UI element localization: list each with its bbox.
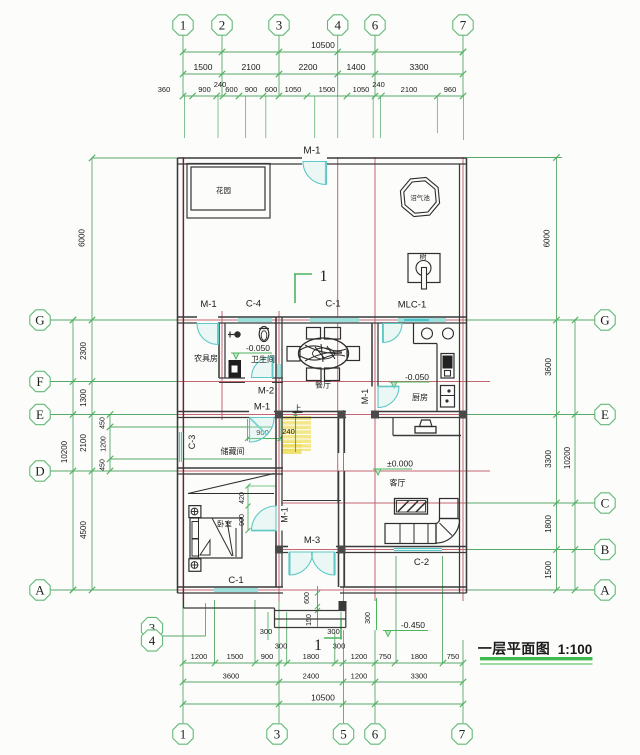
entry steps <box>275 610 346 612</box>
window C-1 north <box>310 317 359 323</box>
leader to bubbles 3,4 <box>160 635 206 637</box>
svg-text:农具房: 农具房 <box>194 353 218 363</box>
svg-text:2100: 2100 <box>401 85 418 94</box>
door M-1 kitchen <box>378 386 399 388</box>
svg-text:1200: 1200 <box>351 672 368 681</box>
svg-text:7: 7 <box>459 727 466 742</box>
svg-text:C-3: C-3 <box>187 435 197 450</box>
svg-text:240: 240 <box>282 427 295 436</box>
bathroom toilet <box>259 327 269 342</box>
svg-text:2: 2 <box>219 18 226 33</box>
svg-text:E: E <box>36 407 44 422</box>
door M-2 bathroom <box>272 357 274 378</box>
svg-text:6: 6 <box>372 18 379 33</box>
svg-text:±0.000: ±0.000 <box>387 459 413 469</box>
svg-text:1: 1 <box>320 268 328 285</box>
courtyard left wall <box>177 158 179 593</box>
nightstands <box>189 506 201 518</box>
wall E <box>178 411 250 413</box>
wall G (north) <box>178 316 198 318</box>
svg-text:卧室: 卧室 <box>217 519 232 529</box>
svg-text:1200: 1200 <box>351 652 368 661</box>
svg-text:1800: 1800 <box>411 652 428 661</box>
svg-text:600: 600 <box>225 85 238 94</box>
bed <box>190 518 242 558</box>
tree/well symbol <box>408 254 440 283</box>
svg-text:900: 900 <box>245 85 258 94</box>
svg-text:G: G <box>35 313 44 328</box>
svg-text:M-2: M-2 <box>258 386 274 397</box>
svg-text:2100: 2100 <box>79 434 88 452</box>
staircase highlight <box>282 416 312 451</box>
svg-text:1: 1 <box>314 637 322 654</box>
wall A (south) <box>178 586 284 588</box>
axis bubbles left <box>30 310 50 330</box>
svg-text:M-1: M-1 <box>254 402 270 413</box>
wall axis5 <box>338 412 340 454</box>
svg-text:10500: 10500 <box>311 693 335 703</box>
biogas pool octagon <box>400 177 439 216</box>
under-stair slope <box>188 493 274 495</box>
svg-text:4: 4 <box>334 18 341 33</box>
svg-text:240: 240 <box>214 80 227 89</box>
svg-text:C-4: C-4 <box>246 299 261 310</box>
svg-text:6000: 6000 <box>543 229 552 247</box>
bottom dimension lines <box>183 662 463 664</box>
svg-text:B: B <box>601 542 610 557</box>
svg-text:4: 4 <box>149 633 156 648</box>
svg-text:750: 750 <box>379 652 392 661</box>
svg-text:1:100: 1:100 <box>558 642 593 657</box>
planter (garden bed) <box>187 164 270 219</box>
courtyard 6000 dims <box>91 158 93 320</box>
wall axis6 <box>371 323 373 387</box>
window MLC-1 <box>398 317 446 323</box>
svg-text:7: 7 <box>460 18 467 33</box>
portal line at C <box>283 500 341 502</box>
svg-text:4500: 4500 <box>79 521 88 539</box>
wall F <box>219 377 245 379</box>
courtyard right wall <box>459 164 461 317</box>
svg-text:MLC-1: MLC-1 <box>398 300 427 311</box>
svg-text:花园: 花园 <box>216 185 231 195</box>
svg-text:树: 树 <box>420 252 427 261</box>
step detail dims <box>317 586 319 628</box>
svg-text:M-1: M-1 <box>360 389 370 405</box>
right dimension lines <box>556 320 558 590</box>
svg-text:C-2: C-2 <box>414 557 429 568</box>
svg-text:C: C <box>601 496 610 511</box>
axis bubbles right <box>595 310 615 330</box>
svg-text:客厅: 客厅 <box>390 478 406 488</box>
svg-text:750: 750 <box>447 652 460 661</box>
svg-text:-0.050: -0.050 <box>405 372 429 382</box>
window C-4 <box>238 317 272 323</box>
svg-text:A: A <box>600 583 610 598</box>
axis bubbles top <box>173 15 193 35</box>
svg-text:C-1: C-1 <box>325 299 340 310</box>
svg-text:5: 5 <box>340 727 347 742</box>
svg-text:960: 960 <box>444 85 457 94</box>
left wall inner line <box>183 317 185 593</box>
svg-text:E: E <box>601 407 609 422</box>
window C-3 <box>178 432 184 462</box>
kitchen counter <box>413 323 415 344</box>
window C-2 <box>394 547 442 553</box>
svg-text:餐厅: 餐厅 <box>315 381 331 390</box>
svg-text:1050: 1050 <box>353 85 370 94</box>
column at entry <box>339 601 347 611</box>
svg-text:6000: 6000 <box>78 229 87 247</box>
svg-text:3600: 3600 <box>544 358 553 376</box>
svg-text:600: 600 <box>265 85 278 94</box>
svg-text:1: 1 <box>180 727 187 742</box>
svg-text:2300: 2300 <box>79 342 88 360</box>
svg-text:240: 240 <box>372 80 385 89</box>
door M-1 bedroom <box>252 530 277 532</box>
svg-text:1800: 1800 <box>544 515 553 533</box>
interior dims near stair <box>247 419 249 441</box>
svg-text:300: 300 <box>327 627 340 636</box>
svg-text:10200: 10200 <box>563 446 572 469</box>
svg-text:1: 1 <box>180 18 187 33</box>
door M-1 storage <box>250 418 267 435</box>
svg-text:1050: 1050 <box>285 85 302 94</box>
svg-text:300: 300 <box>333 642 346 651</box>
interior dims bedroom door <box>247 486 249 531</box>
svg-text:300: 300 <box>275 642 288 651</box>
left dimension lines <box>72 320 74 590</box>
TV alcove <box>392 418 394 436</box>
svg-text:M-1: M-1 <box>303 146 321 157</box>
svg-text:1300: 1300 <box>79 389 88 407</box>
svg-text:450: 450 <box>100 417 107 429</box>
door MLC-1 leaf <box>382 324 384 343</box>
axis bubbles bottom <box>173 724 193 744</box>
svg-text:沼气池: 沼气池 <box>410 193 430 202</box>
svg-text:1200: 1200 <box>191 652 208 661</box>
section mark 1 (bottom) <box>324 637 342 639</box>
svg-text:D: D <box>35 464 44 479</box>
svg-text:一层平面图: 一层平面图 <box>478 641 551 657</box>
sofa <box>385 524 436 544</box>
svg-text:150: 150 <box>306 614 313 626</box>
svg-text:3300: 3300 <box>544 450 553 468</box>
svg-text:360: 360 <box>158 85 171 94</box>
svg-text:G: G <box>600 313 609 328</box>
door M-3 double entry <box>288 552 290 575</box>
courtyard top wall <box>178 157 303 159</box>
kitchen sink circles <box>422 328 433 339</box>
svg-text:2400: 2400 <box>303 672 320 681</box>
svg-text:3300: 3300 <box>410 62 429 72</box>
kitchen lower unit <box>441 386 455 408</box>
red axis lines <box>160 319 490 321</box>
wall axis3 <box>275 317 277 506</box>
svg-text:300: 300 <box>260 627 273 636</box>
svg-text:10200: 10200 <box>60 440 69 463</box>
door M-1 courtyard gate <box>325 161 327 185</box>
svg-text:450: 450 <box>100 459 107 471</box>
svg-text:2100: 2100 <box>242 62 261 72</box>
svg-text:900: 900 <box>198 85 211 94</box>
svg-text:-0.050: -0.050 <box>246 343 270 353</box>
wall junction blocks <box>275 411 283 419</box>
svg-text:3600: 3600 <box>223 672 240 681</box>
svg-text:900: 900 <box>261 652 274 661</box>
svg-text:3: 3 <box>274 727 281 742</box>
dining chairs <box>307 328 321 340</box>
svg-text:1500: 1500 <box>227 652 244 661</box>
wall D <box>178 467 284 469</box>
svg-text:A: A <box>35 583 45 598</box>
door M-1 farm-tool room <box>217 323 219 345</box>
svg-text:M-1: M-1 <box>280 507 290 523</box>
wall axis2 <box>218 323 220 378</box>
TV set <box>415 427 436 434</box>
right wall inner line <box>459 317 461 593</box>
bathroom shower <box>228 334 237 336</box>
svg-text:10500: 10500 <box>311 40 335 50</box>
leader bubbles 3 4 <box>141 617 162 638</box>
svg-text:600: 600 <box>304 592 311 604</box>
svg-text:卫生间: 卫生间 <box>251 354 275 364</box>
svg-text:1500: 1500 <box>194 62 213 72</box>
svg-text:2200: 2200 <box>299 62 318 72</box>
svg-text:3: 3 <box>276 18 283 33</box>
svg-text:C-1: C-1 <box>228 575 243 586</box>
svg-text:1500: 1500 <box>319 85 336 94</box>
svg-text:1200: 1200 <box>101 436 108 452</box>
small window axis3 <box>276 364 282 378</box>
top dimension lines <box>183 51 463 53</box>
window C-1 south <box>214 587 258 593</box>
svg-text:1500: 1500 <box>544 561 553 579</box>
svg-text:储藏间: 储藏间 <box>221 446 245 456</box>
svg-text:3300: 3300 <box>411 672 428 681</box>
svg-text:1400: 1400 <box>347 62 366 72</box>
svg-text:300: 300 <box>365 612 372 624</box>
svg-text:M-1: M-1 <box>200 299 216 310</box>
svg-text:F: F <box>36 374 43 389</box>
svg-text:厨房: 厨房 <box>412 392 428 402</box>
section mark 1 (top) <box>294 273 312 275</box>
wall B <box>276 546 288 548</box>
washing machine <box>229 360 242 378</box>
kitchen stove unit <box>441 354 454 379</box>
svg-text:M-3: M-3 <box>304 535 320 546</box>
svg-text:-0.450: -0.450 <box>401 620 425 630</box>
svg-text:上: 上 <box>294 404 302 413</box>
coffee table <box>395 499 428 515</box>
svg-text:6: 6 <box>372 727 379 742</box>
apron line <box>183 593 185 608</box>
stair arrow <box>295 412 297 452</box>
dining table <box>299 338 349 369</box>
